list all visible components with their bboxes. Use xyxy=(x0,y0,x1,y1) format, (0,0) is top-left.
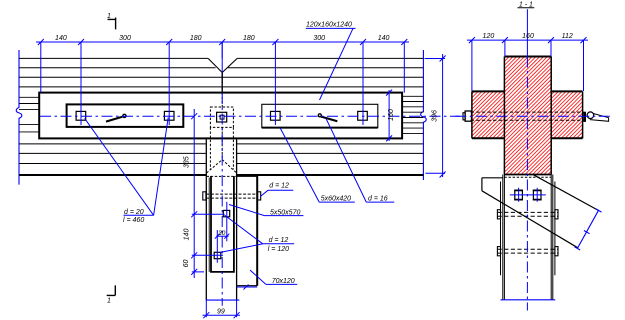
top bolt head left xyxy=(203,192,206,200)
section mark 1 bottom xyxy=(107,285,116,304)
bolt B4 xyxy=(358,111,368,120)
hidden post tenon edges xyxy=(210,127,233,169)
right connector plate xyxy=(262,104,378,127)
label d=12 l=120 xyxy=(220,215,294,253)
bolt row 2 hidden xyxy=(498,249,558,253)
center bolt inner square xyxy=(220,115,224,119)
hatched right beam block xyxy=(551,91,582,138)
svg-text:d = 16: d = 16 xyxy=(368,195,388,202)
joint line below notch xyxy=(221,73,223,93)
label d=20 l=460 xyxy=(85,118,169,224)
bolt B3 xyxy=(271,111,281,120)
svg-text:300: 300 xyxy=(313,35,325,42)
bolt head xyxy=(465,111,471,121)
svg-text:160: 160 xyxy=(388,109,395,121)
side board 70x120 bottom edge xyxy=(237,285,258,287)
cotter pin wedge xyxy=(590,113,609,121)
right dimension 396 xyxy=(425,54,446,178)
left block outline xyxy=(472,91,505,138)
svg-text:396: 396 xyxy=(431,110,438,122)
hatched post section xyxy=(504,57,551,175)
beam plank lines xyxy=(19,58,423,163)
section mark 1 top xyxy=(107,13,116,29)
bolt B2 xyxy=(164,111,174,120)
svg-text:d = 12: d = 12 xyxy=(269,183,289,190)
top bolt head right xyxy=(258,192,261,200)
hatched left beam block xyxy=(472,91,505,138)
side board 70x120 right edge xyxy=(256,176,258,286)
section dimension chain xyxy=(467,37,588,91)
wire beam left break line xyxy=(16,50,22,185)
small width dim at side board bottom xyxy=(237,285,258,290)
svg-text:70x120: 70x120 xyxy=(272,278,295,285)
svg-text:1: 1 xyxy=(107,298,111,305)
screw symbol left plate xyxy=(106,114,126,121)
svg-text:99: 99 xyxy=(217,309,225,316)
post vertical centerline xyxy=(221,42,223,73)
svg-text:1: 1 xyxy=(107,13,111,20)
svg-text:300: 300 xyxy=(119,35,131,42)
side board 70x120 top edge xyxy=(237,175,258,177)
small bolt lower xyxy=(214,252,221,258)
svg-text:60: 60 xyxy=(183,260,190,268)
fine lamination lines beam left end xyxy=(19,97,39,132)
svg-text:l = 120: l = 120 xyxy=(268,246,289,253)
right block outline xyxy=(551,91,582,138)
post bottom break (blue) xyxy=(206,299,240,301)
small 30 offset dimension xyxy=(215,202,230,263)
post lamination line xyxy=(208,178,210,272)
label 5x60x420 xyxy=(280,128,355,203)
svg-text:112: 112 xyxy=(562,33,573,40)
steel plate on post (5x50x570) xyxy=(211,176,234,272)
diagonal brace xyxy=(482,175,598,248)
fine lamination lines beam right end xyxy=(402,96,423,133)
svg-text:d = 12: d = 12 xyxy=(269,237,289,244)
post right edge xyxy=(236,139,238,299)
label 120x160x1240 xyxy=(306,22,356,100)
cotter pin eye xyxy=(587,112,594,119)
label 70x120 xyxy=(250,270,297,285)
svg-text:140: 140 xyxy=(183,229,190,241)
label d=16 xyxy=(326,119,394,203)
left connector plate xyxy=(67,104,184,127)
top dimension chain xyxy=(36,39,409,125)
beam bottom edge xyxy=(19,174,423,176)
hidden notch line below beam xyxy=(504,176,551,178)
svg-text:5x60x420: 5x60x420 xyxy=(321,195,351,202)
label d=12 top bolt xyxy=(260,183,293,197)
joint line overdraw xyxy=(221,73,223,93)
side plates below beam xyxy=(501,182,555,276)
main horizontal centerline xyxy=(40,115,460,117)
brace end dimension line xyxy=(575,209,602,250)
main bolt hidden shaft xyxy=(471,112,584,120)
small bolt upper xyxy=(223,210,229,216)
bolt row 1 hidden xyxy=(498,212,558,216)
bolt B1 xyxy=(76,111,86,120)
screw axes blue xyxy=(510,188,546,202)
screw symbol right plate xyxy=(318,114,337,121)
bolt head washer xyxy=(463,113,465,120)
post left edge xyxy=(205,139,207,299)
svg-text:140: 140 xyxy=(55,35,67,42)
svg-text:180: 180 xyxy=(243,35,255,42)
hidden joint line behind band xyxy=(221,93,223,158)
screw heads in post xyxy=(514,190,541,199)
svg-text:l = 460: l = 460 xyxy=(123,217,144,224)
bottom dimension 99 xyxy=(203,300,241,318)
V-notch joint at midspan xyxy=(208,58,237,72)
post below beam edges xyxy=(503,175,553,300)
nut washer bar xyxy=(583,112,586,122)
svg-text:160: 160 xyxy=(522,33,534,40)
post bottom break blue xyxy=(501,299,556,301)
bolt row 1 washers xyxy=(497,210,500,219)
svg-text:30: 30 xyxy=(218,230,226,237)
center bolt outer square xyxy=(217,112,227,122)
left vertical dimension chain xyxy=(191,109,224,278)
hidden notch line xyxy=(207,175,237,177)
section bolt horizontal centerline xyxy=(455,115,610,117)
top horizontal bolt hidden lines xyxy=(206,194,257,198)
post section outline xyxy=(504,56,551,58)
dimension 160 on band xyxy=(386,90,392,142)
svg-text:120: 120 xyxy=(483,33,495,40)
svg-text:180: 180 xyxy=(190,35,202,42)
hidden post chamfer point xyxy=(207,160,237,173)
wire beam right break line xyxy=(421,50,427,180)
svg-text:335: 335 xyxy=(183,156,190,168)
hidden washer plate at center bolt xyxy=(210,107,233,127)
bolt row 2 washers xyxy=(497,247,500,256)
section vertical centerline xyxy=(526,9,528,56)
label 5x50x570 xyxy=(229,205,303,217)
side board (band) across beam xyxy=(39,93,402,139)
svg-text:140: 140 xyxy=(378,35,390,42)
svg-text:120x160x1240: 120x160x1240 xyxy=(306,22,352,29)
